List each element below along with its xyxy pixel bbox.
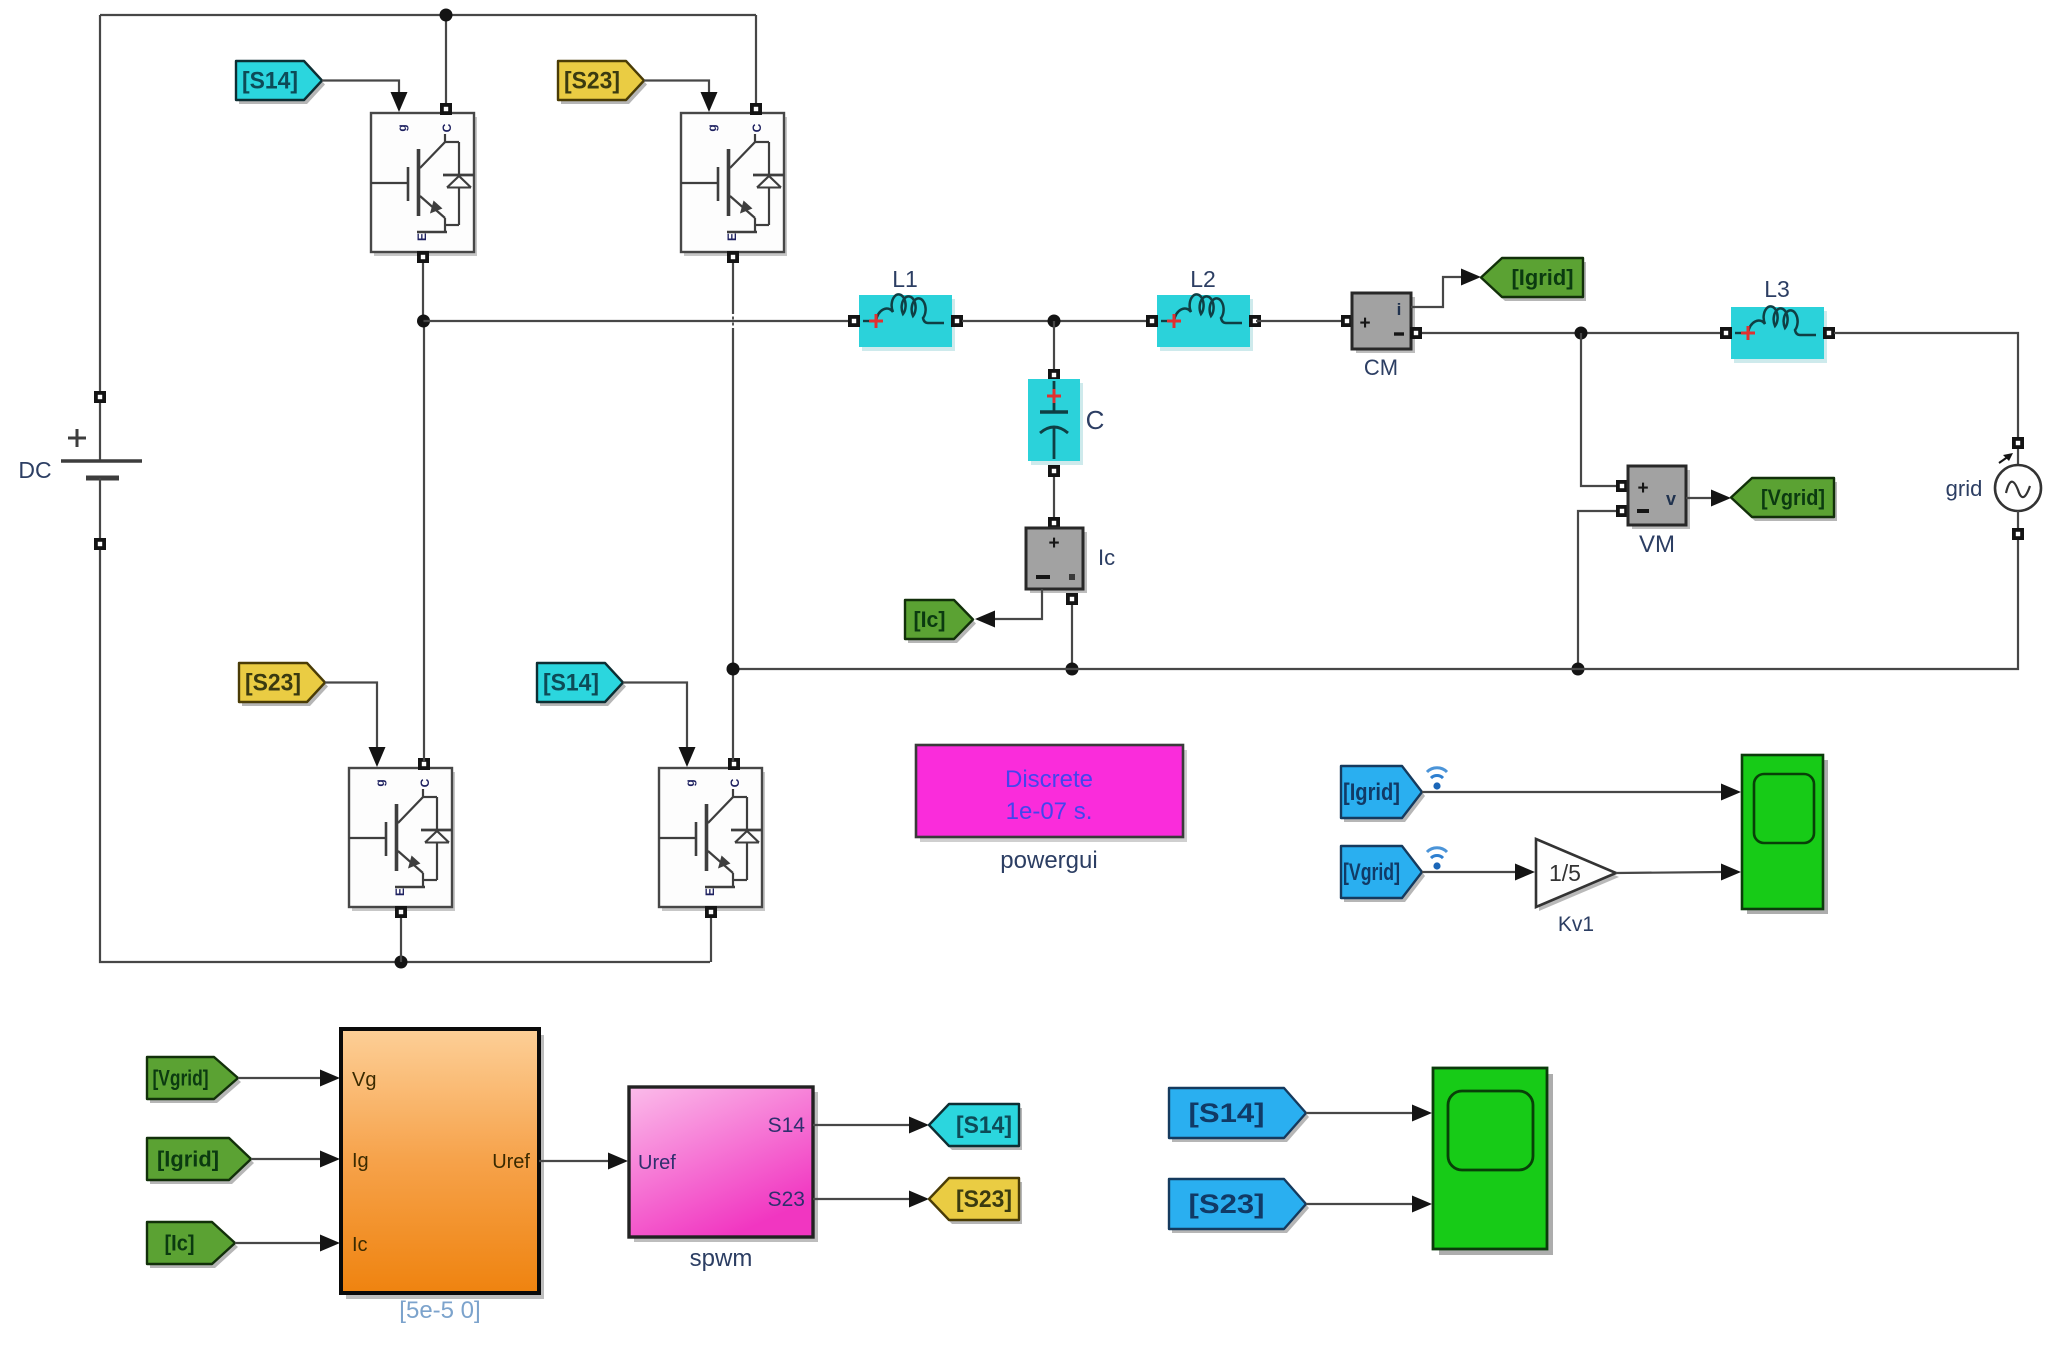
current measurement CM	[1341, 293, 1422, 380]
goto tag [S23] lower	[239, 663, 328, 706]
inductor L1	[848, 266, 963, 351]
IGBT Q1 (upper left)	[371, 103, 477, 263]
goto tag [S23] upper	[558, 61, 647, 104]
wire: [Igrid] to controller Ig	[251, 1158, 321, 1160]
wire: left leg midpoint vertical	[422, 263, 424, 321]
svg-text:g: g	[395, 124, 409, 131]
svg-text:Ig: Ig	[352, 1150, 369, 1172]
node: rail junction	[440, 9, 453, 22]
svg-text:L2: L2	[1190, 266, 1216, 292]
svg-text:[Ic]: [Ic]	[165, 1230, 195, 1255]
svg-text:C: C	[440, 123, 454, 132]
svg-text:[Igrid]: [Igrid]	[157, 1146, 219, 1171]
svg-text:[S14]: [S14]	[1189, 1098, 1265, 1128]
wire: Q4 E to bottom bus	[710, 918, 712, 962]
wifi icon Igrid	[1427, 768, 1447, 790]
from tag [S23] blue	[1169, 1179, 1309, 1233]
svg-text:E: E	[703, 888, 717, 896]
wire: Ic signal to [Ic] tag	[979, 589, 1042, 619]
from tag [Igrid] (blue wireless)	[1341, 766, 1425, 822]
wifi icon Vgrid	[1427, 848, 1447, 870]
wire: DC- down to bottom bus	[100, 550, 710, 962]
svg-text:VM: VM	[1639, 531, 1675, 558]
svg-text:[Vgrid]: [Vgrid]	[153, 1065, 209, 1090]
current measurement Ic	[1026, 517, 1115, 605]
goto tag [S14] output	[929, 1104, 1022, 1150]
wire: rail drop to Q2 C	[755, 15, 757, 104]
svg-text:v: v	[1666, 489, 1676, 509]
wire: Uref to spwm	[539, 1160, 609, 1162]
wire: right leg vertical (crosses output wire)	[732, 263, 734, 314]
wire: spwm S23 out	[813, 1198, 910, 1200]
wire: L2 to CM	[1256, 320, 1343, 322]
svg-text:[Vgrid]: [Vgrid]	[1343, 859, 1400, 886]
wire: DC+ top rail	[100, 14, 756, 16]
wire: DC+ left vertical	[99, 15, 101, 391]
svg-text:+: +	[1048, 533, 1059, 554]
svg-text:[Igrid]: [Igrid]	[1343, 779, 1400, 806]
wire: CM i out to [Igrid]	[1411, 277, 1462, 307]
wire: bridge output to L1	[424, 320, 849, 322]
DC source battery	[18, 391, 142, 550]
svg-text:[S14]: [S14]	[242, 68, 298, 95]
svg-text:E: E	[393, 888, 407, 896]
goto tag [Ic]	[905, 600, 976, 643]
svg-text:S14: S14	[768, 1114, 806, 1137]
svg-text:grid: grid	[1946, 476, 1983, 501]
voltage measurement VM	[1616, 466, 1690, 558]
wire: VM v out to [Vgrid]	[1686, 497, 1712, 499]
svg-text:i: i	[1397, 300, 1402, 319]
svg-text:[S23]: [S23]	[245, 670, 301, 697]
IGBT Q4 (lower right)	[659, 758, 765, 918]
from tag [Igrid] green	[147, 1138, 254, 1184]
svg-text:[Ic]: [Ic]	[914, 607, 946, 632]
wire: tap down to C	[1053, 321, 1055, 369]
from tag [Vgrid] (blue wireless)	[1341, 846, 1425, 902]
svg-text:Uref: Uref	[638, 1152, 676, 1174]
svg-text:[S23]: [S23]	[1189, 1189, 1265, 1219]
svg-text:[5e-5 0]: [5e-5 0]	[399, 1297, 480, 1324]
svg-text:+: +	[1359, 313, 1370, 334]
wire: [Igrid] to scope	[1422, 791, 1722, 793]
goto tag [S14] upper	[236, 61, 325, 104]
node: bus junction under VM	[1572, 663, 1585, 676]
inductor L2	[1146, 266, 1261, 351]
from tag [Ic] green	[147, 1222, 238, 1268]
wire: Ic out to bottom bus	[1071, 605, 1073, 669]
gain Kv1	[1536, 839, 1619, 936]
node: bus junction under Ic	[1066, 663, 1079, 676]
IGBT Q3 (lower left)	[349, 758, 455, 918]
svg-text:DC: DC	[18, 457, 51, 483]
svg-text:g: g	[373, 779, 387, 786]
wire: rail drop to Q1 C	[445, 15, 447, 104]
node: bus junction at right leg	[727, 663, 740, 676]
svg-text:powergui: powergui	[1000, 847, 1097, 874]
IGBT Q2 (upper right)	[681, 103, 787, 263]
svg-text:C: C	[1086, 405, 1105, 435]
AC source grid	[1946, 437, 2041, 540]
svg-text:+: +	[1637, 478, 1648, 499]
wire: [S14] to Q1 gate	[322, 81, 399, 108]
inductor L3	[1720, 276, 1835, 363]
from tag [S14] blue	[1169, 1088, 1309, 1142]
svg-text:C: C	[750, 123, 764, 132]
svg-text:g: g	[683, 779, 697, 786]
svg-text:spwm: spwm	[690, 1245, 753, 1272]
wire: [S14] to Q4 gate	[623, 683, 687, 763]
controller block [5e-5 0]	[341, 1029, 544, 1324]
wire: [Ic] to controller Ic	[235, 1242, 321, 1244]
svg-text:[S14]: [S14]	[956, 1112, 1012, 1139]
wire: Kv1 to scope	[1616, 872, 1722, 873]
svg-text:Discrete: Discrete	[1005, 766, 1093, 793]
svg-text:[Igrid]: [Igrid]	[1512, 265, 1574, 290]
svg-text:1/5: 1/5	[1549, 860, 1581, 886]
wire: C to Ic measurement	[1053, 477, 1055, 517]
wire: Q3 E to bottom bus	[400, 918, 402, 962]
goto tag [Vgrid]	[1731, 478, 1837, 521]
svg-text:C: C	[728, 778, 742, 787]
svg-text:[S23]: [S23]	[564, 68, 620, 95]
wire: [S14] to scope2	[1306, 1112, 1413, 1114]
svg-text:[Vgrid]: [Vgrid]	[1761, 485, 1825, 510]
wire: L3 to grid	[1834, 333, 2018, 437]
svg-text:L1: L1	[892, 266, 918, 292]
wire: grid return to bottom bus	[733, 540, 2018, 669]
scope (Igrid/Vgrid)	[1742, 755, 1828, 914]
wire: CM - out toward L3	[1422, 332, 1728, 334]
node: VM tap junction	[1575, 327, 1588, 340]
wire: [S23] to Q3 gate	[325, 683, 377, 763]
svg-text:C: C	[418, 778, 432, 787]
goto tag [S23] output	[929, 1178, 1022, 1224]
powergui block	[916, 745, 1187, 874]
goto tag [Igrid]	[1481, 258, 1586, 301]
wire: VM - down to bottom bus	[1578, 511, 1616, 669]
node: filter cap tap	[1048, 315, 1061, 328]
from tag [Vgrid] green	[147, 1057, 241, 1103]
svg-text:S23: S23	[768, 1188, 805, 1211]
svg-text:E: E	[415, 233, 429, 241]
capacitor C	[1028, 369, 1104, 477]
svg-text:E: E	[725, 233, 739, 241]
svg-text:g: g	[705, 124, 719, 131]
svg-text:Uref: Uref	[492, 1151, 530, 1173]
wire: L1 to L2	[962, 320, 1152, 322]
wire: spwm S14 out	[813, 1124, 910, 1126]
wire: [S23] to Q2 gate	[644, 81, 709, 108]
scope (S14/S23)	[1433, 1068, 1553, 1255]
svg-text:Kv1: Kv1	[1558, 913, 1594, 936]
svg-text:Ic: Ic	[352, 1234, 368, 1256]
svg-text:CM: CM	[1364, 355, 1398, 380]
goto tag [S14] lower	[537, 663, 626, 706]
svg-text:[S23]: [S23]	[956, 1186, 1012, 1213]
spwm block	[629, 1087, 818, 1272]
svg-text:L3: L3	[1764, 276, 1790, 302]
node: left leg junction	[417, 315, 430, 328]
svg-text:Ic: Ic	[1098, 545, 1115, 570]
node: bottom bus junction at Q3 E	[395, 956, 408, 969]
wire: tap down to VM +	[1581, 333, 1616, 486]
svg-text:1e-07 s.: 1e-07 s.	[1006, 798, 1093, 825]
wire: [Vgrid] to controller Vg	[238, 1077, 321, 1079]
svg-text:Vg: Vg	[352, 1069, 376, 1091]
svg-text:[S14]: [S14]	[543, 670, 599, 697]
wire: [Vgrid] to gain Kv1	[1422, 871, 1516, 873]
wire: [S23] to scope2	[1306, 1203, 1413, 1205]
